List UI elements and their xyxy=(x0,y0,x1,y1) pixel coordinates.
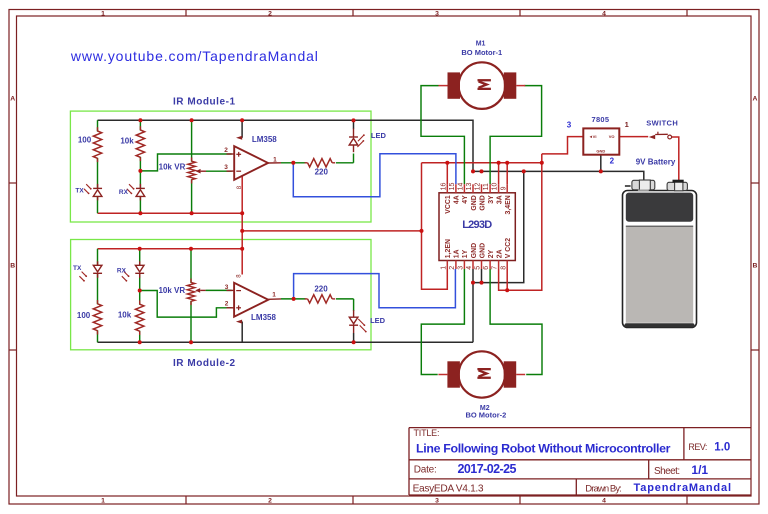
svg-text:L293D: L293D xyxy=(462,219,492,231)
svg-text:TX: TX xyxy=(75,187,84,194)
svg-text:2: 2 xyxy=(224,147,228,154)
svg-text:1: 1 xyxy=(440,266,447,270)
svg-text:4A: 4A xyxy=(454,195,461,204)
svg-text:GND: GND xyxy=(471,243,478,258)
svg-text:LED: LED xyxy=(371,131,387,140)
svg-text:6: 6 xyxy=(483,266,490,270)
svg-text:1: 1 xyxy=(101,10,105,17)
svg-text:10k: 10k xyxy=(118,311,132,320)
svg-text:1A: 1A xyxy=(454,249,461,258)
svg-text:TX: TX xyxy=(73,265,82,272)
svg-text:13: 13 xyxy=(466,183,473,191)
svg-text:TITLE:: TITLE: xyxy=(414,428,440,438)
svg-text:3A: 3A xyxy=(496,195,503,204)
svg-text:RX: RX xyxy=(119,189,129,196)
svg-text:5: 5 xyxy=(475,266,482,270)
svg-text:GND: GND xyxy=(471,195,478,210)
svg-text:220: 220 xyxy=(314,284,328,293)
svg-text:B: B xyxy=(753,263,758,270)
svg-text:www.youtube.com/TapendraMandal: www.youtube.com/TapendraMandal xyxy=(70,48,318,64)
svg-text:100: 100 xyxy=(77,311,91,320)
svg-text:2: 2 xyxy=(268,10,272,17)
svg-text:100: 100 xyxy=(78,136,92,145)
svg-text:A: A xyxy=(10,95,15,102)
svg-text:220: 220 xyxy=(315,168,329,177)
svg-text:GND: GND xyxy=(596,149,605,154)
svg-text:A: A xyxy=(753,95,758,102)
svg-text:LM358: LM358 xyxy=(252,135,277,144)
svg-text:2017-02-25: 2017-02-25 xyxy=(458,462,517,476)
svg-text:Drawn By:: Drawn By: xyxy=(585,483,622,494)
svg-text:12: 12 xyxy=(475,183,482,191)
svg-text:Line Following Robot Without M: Line Following Robot Without Microcontro… xyxy=(416,442,671,456)
svg-text:2: 2 xyxy=(268,498,272,505)
svg-text:2A: 2A xyxy=(496,249,503,258)
svg-text:1Y: 1Y xyxy=(462,249,469,258)
svg-text:BO Motor-1: BO Motor-1 xyxy=(461,48,502,57)
svg-text:9V Battery: 9V Battery xyxy=(636,157,676,166)
svg-text:15: 15 xyxy=(449,183,456,191)
svg-text:VCC1: VCC1 xyxy=(445,195,452,214)
svg-text:SWITCH: SWITCH xyxy=(646,119,678,128)
svg-text:RX: RX xyxy=(117,268,127,275)
svg-text:14: 14 xyxy=(458,183,465,191)
svg-text:TapendraMandal: TapendraMandal xyxy=(634,482,732,494)
svg-text:EasyEDA V4.1.3: EasyEDA V4.1.3 xyxy=(413,484,484,495)
svg-text:GND: GND xyxy=(479,195,486,210)
svg-text:1.0: 1.0 xyxy=(714,441,730,453)
svg-text:11: 11 xyxy=(483,183,490,190)
svg-text:1: 1 xyxy=(625,120,629,129)
svg-text:8: 8 xyxy=(500,266,507,270)
svg-text:LED: LED xyxy=(370,316,386,325)
svg-text:10k: 10k xyxy=(120,137,134,146)
svg-text:M1: M1 xyxy=(476,40,486,47)
svg-text:IR Module-1: IR Module-1 xyxy=(173,97,235,108)
svg-text:Sheet:: Sheet: xyxy=(654,466,680,477)
svg-text:3Y: 3Y xyxy=(488,195,495,204)
svg-text:1: 1 xyxy=(272,292,276,299)
svg-text:10k VR: 10k VR xyxy=(159,162,186,171)
svg-text:2: 2 xyxy=(449,266,456,270)
svg-text:3: 3 xyxy=(567,121,572,130)
svg-text:REV:: REV: xyxy=(688,442,707,452)
svg-text:1: 1 xyxy=(273,157,277,164)
svg-text:BO Motor-2: BO Motor-2 xyxy=(465,410,506,419)
svg-text:3,4EN: 3,4EN xyxy=(505,195,512,214)
svg-text:3: 3 xyxy=(225,284,229,291)
svg-text:10: 10 xyxy=(492,183,499,191)
svg-text:1/1: 1/1 xyxy=(691,463,708,477)
svg-text:4: 4 xyxy=(602,10,606,17)
svg-text:3: 3 xyxy=(435,498,439,505)
svg-text:7805: 7805 xyxy=(592,115,610,124)
svg-text:10k VR: 10k VR xyxy=(158,286,185,295)
svg-text:4Y: 4Y xyxy=(462,195,469,204)
svg-text:VO: VO xyxy=(609,134,615,139)
svg-text:Date:: Date: xyxy=(414,464,437,475)
svg-text:9: 9 xyxy=(500,186,507,190)
svg-text:1: 1 xyxy=(101,498,105,505)
svg-text:3: 3 xyxy=(224,164,228,171)
svg-text:16: 16 xyxy=(440,183,447,191)
svg-text:B: B xyxy=(10,263,15,270)
svg-text:GND: GND xyxy=(479,243,486,258)
svg-text:2Y: 2Y xyxy=(488,249,495,258)
svg-text:IR Module-2: IR Module-2 xyxy=(173,358,235,369)
svg-text:3: 3 xyxy=(458,266,465,270)
svg-text:4: 4 xyxy=(602,498,606,505)
svg-text:V CC2: V CC2 xyxy=(505,238,512,258)
svg-text:1,2EN: 1,2EN xyxy=(445,239,452,258)
svg-text:2: 2 xyxy=(610,156,615,165)
svg-text:LM358: LM358 xyxy=(251,313,276,322)
svg-text:◄VI: ◄VI xyxy=(589,134,597,139)
svg-text:4: 4 xyxy=(466,266,473,270)
svg-text:2: 2 xyxy=(225,301,229,308)
svg-text:7: 7 xyxy=(492,266,499,270)
svg-text:3: 3 xyxy=(435,10,439,17)
